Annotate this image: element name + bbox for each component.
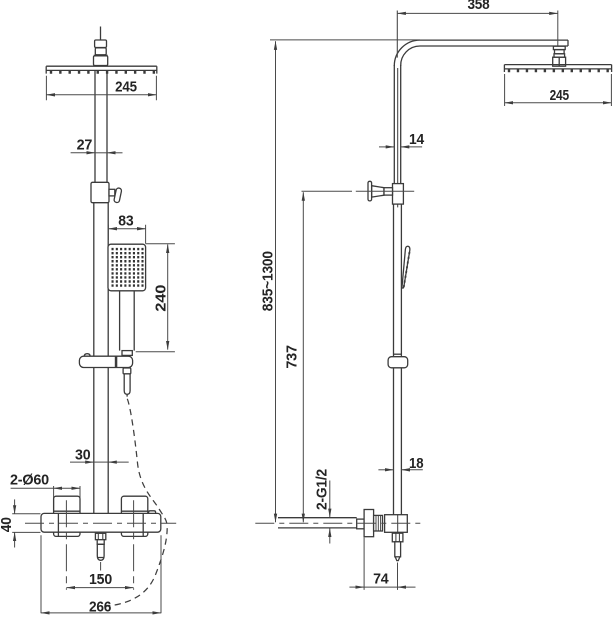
side view: outlet nut below valve (392, 533, 403, 542)
svg-text:245: 245 (550, 87, 569, 104)
side view: outlet tube (395, 542, 401, 557)
front view: mixer outlet tube (97, 544, 104, 560)
side view: mixer valve body (385, 515, 408, 533)
side view: supply stub pipe (278, 518, 357, 528)
svg-text:18: 18 (409, 455, 423, 472)
side view: gooseneck arm (420, 40, 568, 46)
dimension 2-G1/2 supply (329, 481, 331, 544)
front view: right mixer knob (121, 496, 147, 536)
front view: slider lock handle (109, 189, 115, 196)
dimension 74 (349, 538, 415, 590)
front view: holder bar divider (115, 356, 118, 367)
side view: hand shower wand (side) (402, 246, 410, 288)
front view: mixer horizontal centre line (25, 522, 176, 524)
dimension 737 top extension (302, 190, 353, 192)
front view: holder bar knob bump (84, 354, 90, 357)
svg-text:27: 27 (77, 136, 93, 153)
dimension 835~1300 top extension (270, 39, 420, 41)
front view: overhead rain shower head bar (46, 66, 157, 73)
dimension 2-D60 knob diameter (11, 486, 80, 511)
svg-text:150: 150 (89, 571, 112, 588)
front view: riser pipe lower section (94, 203, 108, 514)
front view: hand shower handle end cap (122, 351, 132, 356)
svg-text:83: 83 (118, 212, 133, 229)
front view: dashed shower hose (105, 399, 168, 606)
front view: left mixer knob (54, 496, 80, 536)
front view: button tab on mixer right end (149, 511, 156, 515)
side view: wall flange (364, 510, 374, 537)
side view: diverter bracket on riser (393, 184, 404, 205)
side view: G1/2 thread block (357, 519, 364, 529)
side view: riser mid/lower section (394, 204, 402, 515)
side view: connection nut (374, 515, 383, 531)
side view: overhead rain head plate (504, 65, 611, 72)
front view: top supply stub (100, 27, 102, 41)
dimension 245 front head (46, 76, 156, 101)
front view: rain head spray nozzles (51, 70, 154, 73)
svg-text:245: 245 (115, 79, 137, 96)
side view: knob centre line (356, 190, 414, 192)
front view: outlet vertical centre line (100, 562, 102, 578)
dimension 27 riser width (71, 152, 123, 154)
side view: holder collar on riser (388, 357, 408, 368)
dimension 40 mixer body height (12, 499, 40, 547)
side view: holder collar step (394, 353, 402, 355)
svg-text:14: 14 (409, 131, 425, 148)
side view: riser upper 14mm section (394, 65, 400, 184)
side view: rain head nozzles (509, 69, 608, 72)
dimension 150 connection spacing (66, 587, 133, 589)
svg-text:40: 40 (0, 517, 15, 532)
front view: overhead shower connector stack (94, 40, 108, 66)
dimension 245 side head (505, 74, 612, 106)
dimension 266 mixer width (41, 535, 161, 613)
front view: riser pipe upper section (95, 71, 107, 183)
dimension 240 hand shower length (136, 244, 175, 352)
svg-text:240: 240 (152, 285, 169, 312)
svg-text:737: 737 (283, 345, 300, 369)
svg-text:358: 358 (467, 0, 489, 13)
dimension 358 arm reach (397, 11, 558, 58)
front view: hand shower head (108, 244, 146, 291)
front view: hand shower spray face dots (112, 249, 144, 285)
front view: mixer outlet neck (97, 540, 104, 545)
dimension 83 hand shower width (108, 225, 145, 244)
side view: mixer centre line (255, 522, 421, 524)
dimension 737 (302, 192, 304, 522)
svg-text:30: 30 (75, 446, 90, 463)
front view: wall holder bar (79, 356, 132, 367)
side view: elbow curve (394, 40, 420, 66)
svg-text:74: 74 (373, 570, 389, 587)
side view: overhead head connector stack (553, 46, 566, 66)
front view: hand shower handle (120, 291, 135, 351)
svg-text:835~1300: 835~1300 (259, 251, 276, 311)
dimension 835~1300 (275, 41, 277, 522)
svg-text:266: 266 (89, 599, 111, 616)
front view: slider lock bracket on riser (91, 182, 109, 202)
front view: mixer outlet nut (95, 533, 105, 539)
side view: diverter knob cap (368, 181, 372, 201)
dimension 30 lower riser width (70, 461, 129, 463)
svg-text:2-Ø60: 2-Ø60 (10, 472, 49, 489)
svg-text:2-G1/2: 2-G1/2 (314, 469, 331, 510)
front view: hose connector below holder (123, 368, 131, 374)
side view: diverter knob stem (372, 186, 384, 197)
front view: thermostatic mixer body bar (41, 513, 161, 532)
dimension 14 riser width (379, 146, 422, 148)
dimension 18 riser lower width (378, 469, 422, 471)
front view: knob centre lines (66, 500, 133, 590)
front view: knob front edge lines over bar (58, 513, 143, 536)
